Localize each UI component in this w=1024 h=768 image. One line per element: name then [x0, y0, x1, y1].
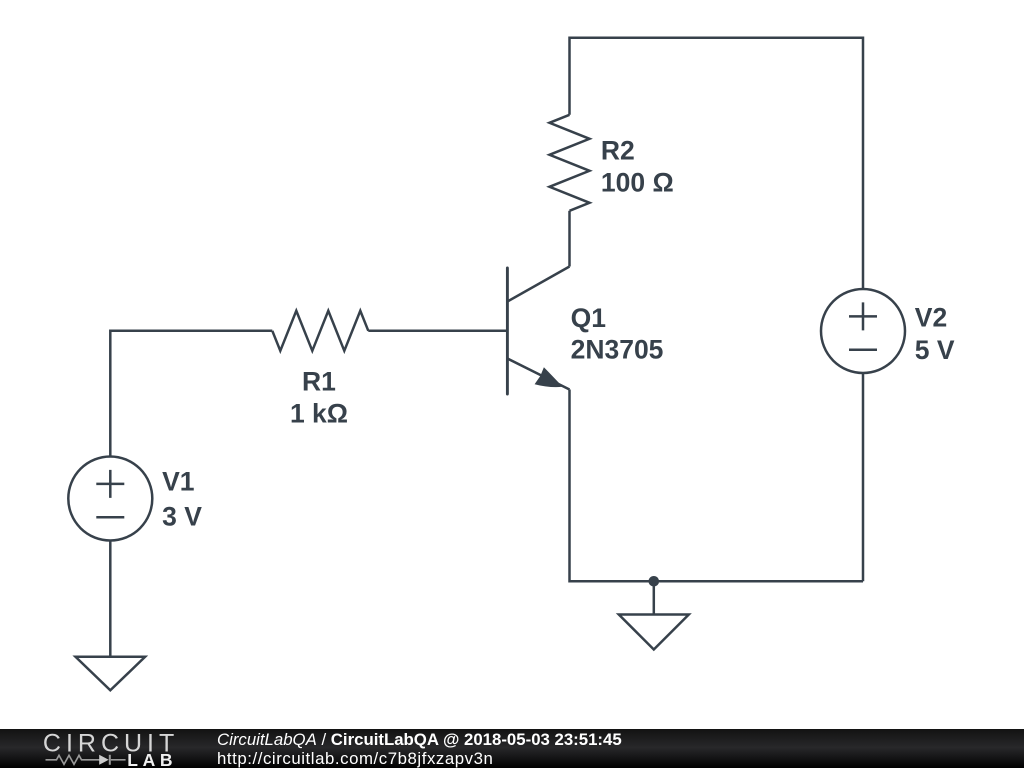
wire V1 minus down to ground — [109, 541, 112, 657]
svg-text:3 V: 3 V — [162, 502, 202, 532]
wire R2 top to top rail and down to V2 plus — [570, 38, 864, 289]
transistor Q1 collector diagonal — [507, 267, 569, 302]
transistor Q1 base bar — [506, 268, 509, 394]
ground symbol at bottom center: triangle — [619, 615, 689, 650]
CircuitLab logo: diode triangle — [99, 755, 109, 765]
CircuitLab logo: resistor-diode squiggle — [46, 755, 126, 765]
voltage source V1 circle — [68, 457, 152, 541]
svg-text:1 kΩ: 1 kΩ — [290, 399, 348, 429]
svg-text:5 V: 5 V — [915, 335, 955, 365]
svg-text:100 Ω: 100 Ω — [601, 168, 674, 198]
wire Q1 collector up to R2 — [568, 211, 571, 267]
transistor Q1 emitter diagonal — [507, 359, 569, 390]
wire V2 minus down to bottom rail — [862, 373, 865, 581]
svg-text:2N3705: 2N3705 — [571, 335, 664, 365]
ground symbol at bottom center: stub — [653, 581, 656, 614]
CircuitLab logo: CIRCUIT wordmark — [0, 729, 200, 768]
resistor R1 — [272, 311, 368, 351]
svg-text:V2: V2 — [915, 303, 947, 333]
svg-text:R1: R1 — [302, 367, 336, 397]
svg-text:LAB: LAB — [127, 750, 177, 768]
svg-text:Q1: Q1 — [571, 303, 606, 333]
wire Q1 emitter down to bottom rail — [570, 390, 864, 582]
svg-text:R2: R2 — [601, 136, 635, 166]
voltage source V2 minus sign — [849, 349, 877, 352]
voltage source V2 circle — [821, 289, 905, 373]
ground symbol below V1: triangle — [76, 657, 146, 691]
voltage source V1 plus sign — [96, 470, 124, 498]
wire V1 plus terminal up to corner and right to R1 — [110, 331, 272, 457]
junction dot at ground node — [649, 576, 660, 587]
voltage source V2 plus sign — [849, 302, 877, 330]
wire R1 to Q1 base — [368, 330, 506, 333]
svg-text:V1: V1 — [162, 467, 194, 497]
footer caption text — [217, 730, 622, 768]
resistor R2 — [550, 115, 590, 211]
transistor Q1 emitter arrow — [535, 367, 563, 387]
footer bar — [0, 729, 1024, 768]
voltage source V1 minus sign — [96, 516, 124, 519]
